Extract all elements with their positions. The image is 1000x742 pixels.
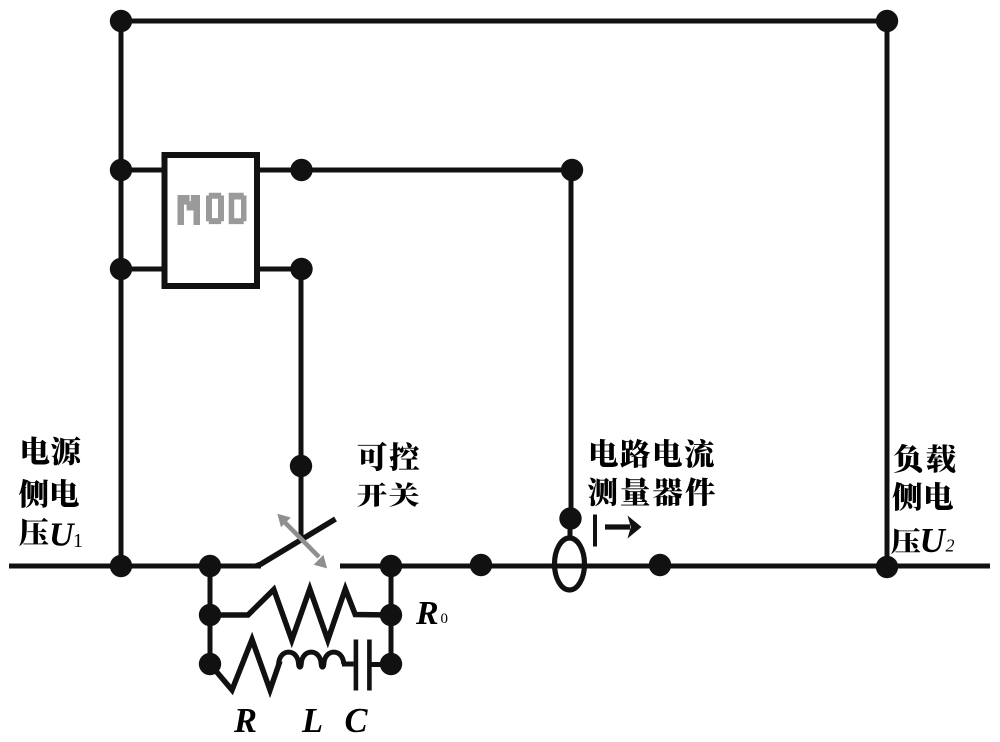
wire capacitor to right <box>372 662 392 667</box>
junction sensor branch top <box>561 159 583 181</box>
wire left vertical (source side) <box>119 21 124 566</box>
svg-text:0: 0 <box>441 611 449 627</box>
junction top-left <box>110 10 132 32</box>
svg-text:R: R <box>415 595 439 632</box>
current direction marker bar <box>593 515 597 547</box>
junction MOD lower-left <box>110 258 132 280</box>
wire sensor branch vertical <box>569 170 574 524</box>
junction bottom sensor-right <box>649 554 671 576</box>
wire bottom bus right segment <box>340 564 990 569</box>
svg-text:1: 1 <box>73 530 83 552</box>
wire MOD right lower lead <box>257 267 301 272</box>
svg-text:R: R <box>233 702 257 740</box>
junction MOD lower-right <box>290 258 312 280</box>
capacitor C left plate <box>354 640 359 691</box>
switch blade (controllable switch) <box>256 519 336 566</box>
svg-text:C: C <box>345 702 369 740</box>
current sensor ellipse <box>555 538 585 590</box>
junction bottom mid <box>470 554 492 576</box>
svg-text:L: L <box>301 702 323 740</box>
MOD converter box outline <box>165 155 258 286</box>
junction R0 left <box>199 604 221 626</box>
wire switch control vertical <box>299 269 304 542</box>
label load side voltage U2 <box>891 444 955 560</box>
capacitor C right plate <box>367 640 372 691</box>
junction MOD upper-left <box>110 159 132 181</box>
inductor L humps <box>279 652 344 667</box>
junction RLC top-left <box>199 555 221 577</box>
switch actuation arrow (gray double-headed) <box>277 514 327 569</box>
wire top bus <box>121 19 887 24</box>
svg-text:U: U <box>920 521 947 560</box>
junction R0 right <box>380 604 402 626</box>
svg-text:U: U <box>49 517 76 554</box>
label source side voltage U1 <box>19 436 83 553</box>
resistor R zigzag <box>210 640 280 691</box>
junction top-right <box>876 10 898 32</box>
junction RLC top-right <box>380 555 402 577</box>
wire right vertical (load side) <box>885 21 890 566</box>
wire MOD left lower lead <box>121 267 165 272</box>
wire inductor to capacitor <box>342 662 354 667</box>
junction switch control <box>290 455 312 477</box>
junction RLC bottom-left <box>199 653 221 675</box>
wire RLC left vertical <box>208 566 213 664</box>
resistor R0 zigzag <box>210 589 391 640</box>
junction bottom right <box>876 556 898 578</box>
junction sensor top <box>559 507 581 529</box>
label controllable switch <box>357 442 419 507</box>
junction RLC bottom-right <box>380 653 402 675</box>
label circuit current measuring device <box>588 439 715 506</box>
junction MOD upper-right <box>290 159 312 181</box>
wire MOD right upper lead to sensor branch <box>257 168 572 173</box>
wire bottom bus left segment <box>9 564 261 569</box>
svg-text:2: 2 <box>946 536 955 556</box>
wire sensor neck stub <box>568 524 573 538</box>
current direction arrow <box>605 524 630 529</box>
wire MOD left upper lead <box>121 168 165 173</box>
MOD pixel label <box>178 193 247 225</box>
wire RLC right vertical <box>389 566 394 664</box>
junction bottom bus left <box>110 555 132 577</box>
